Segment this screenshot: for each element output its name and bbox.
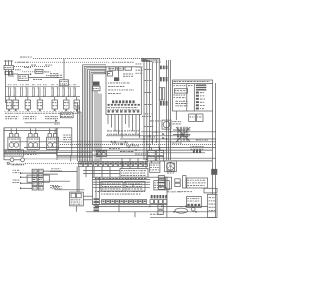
label F1 value xyxy=(45,71,47,74)
wire harness bundle (14 conductors) xyxy=(82,65,84,162)
motor M1 cooling fan xyxy=(162,120,171,129)
label band bits 3 xyxy=(109,147,111,150)
label topleft extra 6 xyxy=(33,78,35,81)
wire long run 0b xyxy=(106,135,190,137)
box under M3 wide xyxy=(204,188,217,193)
wire bottom mid verticals xyxy=(118,205,120,212)
relay K1 power relay xyxy=(18,75,29,81)
connector CN12 U2 bottom cells xyxy=(151,195,153,198)
wire element top bus xyxy=(4,130,57,132)
label band bits 1 xyxy=(112,142,114,145)
heating elements E1-E3 dual surface elements xyxy=(8,137,20,149)
wire long run 3 xyxy=(24,146,216,148)
label U2 lower row xyxy=(101,193,103,196)
label band bits 6 xyxy=(170,142,171,145)
wire K3 out xyxy=(150,161,152,163)
box bottom right pair col xyxy=(183,176,186,188)
box left element enclosure xyxy=(4,128,57,154)
connector CN8 mid-right stack xyxy=(160,66,162,70)
connector CN10 cells xyxy=(193,150,195,153)
connector P11 board pin row lower xyxy=(108,104,110,106)
wire board fanout xyxy=(107,115,109,125)
connector CN15 U2 bottom row xyxy=(102,200,106,204)
cell right edge dark xyxy=(211,169,217,175)
box right tall bottom xyxy=(208,194,218,217)
connector CN13 U2 left cells xyxy=(94,198,100,200)
wire long run 2 dashed xyxy=(60,143,216,145)
label topleft extra 2 xyxy=(24,66,26,69)
wire board inner divider xyxy=(118,67,120,77)
wire dashed feed D xyxy=(22,71,50,73)
switch bank S1-S12 surface switch contacts xyxy=(5,86,80,88)
wire long run 5 xyxy=(100,152,205,154)
label element group 2 xyxy=(23,115,24,118)
module door lock drive xyxy=(57,128,72,156)
label TB1 left tags xyxy=(13,169,14,172)
wire K1 to K2 xyxy=(29,77,60,79)
label board right col xyxy=(136,63,138,66)
wire left block right vertical xyxy=(56,128,58,160)
label board top tags xyxy=(112,61,115,64)
buzzer BZ1 small twin-circle part xyxy=(97,151,107,157)
component Y1 wye symbol xyxy=(167,163,174,171)
label band bits 7 xyxy=(196,139,198,142)
box TB1 enclosure xyxy=(27,175,49,182)
relay K5 inside U2 xyxy=(154,181,170,190)
component DLB fuse block xyxy=(93,82,100,86)
motor M2 convection fan xyxy=(165,161,177,172)
junction dots risers xyxy=(143,141,144,142)
wire U2 under line 1 xyxy=(95,205,208,207)
wire TB1 right 3 xyxy=(43,180,70,182)
switch S20 door latch assembly xyxy=(70,192,84,206)
label door lock xyxy=(50,184,52,187)
label M1 xyxy=(172,120,173,123)
wire left of U2 vertical xyxy=(91,167,93,177)
label TB1 right top xyxy=(51,167,53,170)
label riser tags 1 xyxy=(142,115,143,118)
box U2 inner sub1 xyxy=(101,182,123,192)
label riser tags 3 xyxy=(144,125,146,128)
wire bottom right runs xyxy=(150,216,216,218)
switch row INF1-INF7 infinite switches xyxy=(6,100,11,109)
label right tall box xyxy=(209,196,211,199)
label topleft extra 3 xyxy=(31,64,33,67)
label TB1 right bottom xyxy=(52,185,54,188)
label riser tags 4 xyxy=(152,131,154,134)
connector arrow center xyxy=(55,120,57,122)
relay K3 K4 latch relays xyxy=(148,151,156,156)
wire U2 lip feeds xyxy=(121,158,123,168)
label band bits 2 xyxy=(126,144,128,147)
wire right-side risers xyxy=(143,59,145,160)
fuse F1 xyxy=(35,69,43,73)
label board top xyxy=(123,73,125,76)
element E5 bake element oval xyxy=(175,208,187,213)
connector CN14 xyxy=(158,205,163,209)
wire latch drop xyxy=(75,206,77,212)
label element group 3 xyxy=(45,115,47,118)
label board pin names xyxy=(108,106,111,109)
connector CN5 harness header row xyxy=(79,162,83,167)
label U2 row B xyxy=(95,190,97,193)
wire door lock run xyxy=(55,189,85,191)
wire center bottom long xyxy=(50,171,78,173)
label band bits 4 xyxy=(120,150,123,153)
wire dotted separator xyxy=(4,110,80,112)
wire bus under elements 1 xyxy=(4,150,92,152)
wire TB1 right 1 xyxy=(43,170,62,172)
wire U2 bottom to right xyxy=(166,205,168,218)
label right risers xyxy=(153,59,155,62)
wire dashed feed C xyxy=(14,66,50,68)
connector arrows right xyxy=(162,133,164,135)
junction dots mid xyxy=(114,141,115,142)
wire left edge vertical xyxy=(3,128,5,160)
wire long run 6 xyxy=(57,154,150,156)
wire CN5 to U2 area xyxy=(83,170,120,172)
lamp DS2 xyxy=(192,207,196,211)
wire CN5 drops xyxy=(85,167,87,178)
label M2 xyxy=(167,172,169,175)
label fanout wires xyxy=(107,130,110,133)
label riser tags 2 xyxy=(150,120,152,123)
wire dashed feed A xyxy=(18,61,110,63)
motor M3 latch motor box xyxy=(187,178,208,188)
wire center bottom v1 xyxy=(76,167,78,193)
label bottom right text xyxy=(178,190,180,193)
label topleft extra 4 xyxy=(45,64,47,67)
component pair bottom right xyxy=(175,179,180,182)
label board mid rows xyxy=(108,82,109,85)
junction U2 xyxy=(124,182,125,183)
lamp DS1 oven lights xyxy=(10,158,14,162)
terminal block TB2 column xyxy=(158,176,164,179)
label top wire run xyxy=(15,61,16,64)
junction dots band upper xyxy=(156,131,157,132)
connector pins left arrows xyxy=(22,172,32,174)
table legend chart xyxy=(173,80,213,111)
connector CN9 xyxy=(189,114,196,122)
component row board top boxes xyxy=(109,67,116,70)
label bottom right row xyxy=(167,190,169,193)
label U2 row A xyxy=(95,177,97,180)
wire center bottom v2 xyxy=(78,167,80,193)
wire bus under elements 2 xyxy=(4,152,92,154)
box bottom right tall 1 xyxy=(165,177,171,189)
module warming zone control xyxy=(4,150,24,156)
node wire crossing lattice xyxy=(176,127,190,142)
wire K3 feed xyxy=(150,147,152,150)
label wire W12 xyxy=(50,72,52,75)
label right lower text xyxy=(190,145,191,148)
transformer T1 xyxy=(114,77,119,81)
box U2 inner sub2 xyxy=(125,182,145,192)
table right column cells xyxy=(196,85,206,86)
relay K2 line relay xyxy=(60,80,69,86)
label lower left wires xyxy=(25,151,27,154)
transformer T2 xyxy=(150,163,160,172)
lamp DS3 second row xyxy=(7,162,9,164)
wire U2 inner rails xyxy=(93,179,150,181)
label bottom caption xyxy=(150,213,152,216)
element E4 hidden bake xyxy=(187,196,202,207)
wire long run 7 xyxy=(100,157,216,159)
label riser mid tags xyxy=(145,68,147,71)
wire dashed feed B (to board) xyxy=(33,58,160,60)
module U1 oven control board outline xyxy=(106,67,141,115)
connector P12 board bottom headers xyxy=(108,110,110,112)
label center block title xyxy=(60,113,73,118)
wire table right edge down xyxy=(212,111,214,194)
wire long run 4 xyxy=(92,149,212,151)
wire S20 to U2 xyxy=(83,195,92,197)
label row under switches xyxy=(5,112,7,115)
label topleft extra 5 xyxy=(46,74,47,77)
wire under labels xyxy=(25,122,60,124)
label riser tags 5 xyxy=(143,136,145,139)
label K2 wire xyxy=(55,74,56,77)
wire TB1 right 2 xyxy=(43,173,58,175)
label element group 1 xyxy=(5,115,7,118)
wire U2 under line 2 xyxy=(86,211,216,213)
label topleft extra 1 xyxy=(15,68,16,71)
wire right vert A xyxy=(175,111,177,120)
junction J1 xyxy=(30,74,31,75)
node P1 power terminal block L1/N/L2 xyxy=(5,60,6,61)
module U2 relay board outline xyxy=(92,177,167,204)
label top wire run2 xyxy=(20,56,23,59)
wire long run 8 xyxy=(150,160,212,162)
junction dots bottom lines xyxy=(149,206,150,207)
connector P10 board pin row upper xyxy=(112,100,114,103)
wire long run 1 xyxy=(10,141,216,143)
terminal block TB1 dual column xyxy=(32,169,37,173)
label U2 top lip xyxy=(121,169,123,172)
wire center box out xyxy=(70,155,72,161)
wire long run 0c xyxy=(120,138,216,140)
wire K2 down xyxy=(63,85,65,88)
label band bits 5 xyxy=(135,153,137,156)
wire dashed bottom left xyxy=(24,158,77,160)
wire long run 0a xyxy=(141,131,216,133)
box U2 top lip xyxy=(120,169,148,178)
wire K2 up xyxy=(63,59,65,80)
